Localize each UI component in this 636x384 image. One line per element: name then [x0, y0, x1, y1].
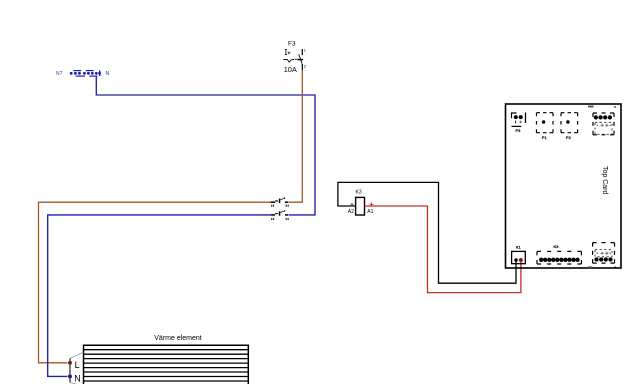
wire brown from fuse pin2 down to contact [289, 70, 302, 202]
svg-text:L: L [75, 360, 80, 370]
svg-text:Top Card: Top Card [601, 166, 608, 195]
wire blue from N terminal down and across to contact [96, 76, 315, 215]
node L [68, 360, 79, 370]
wire red from coil A1 to card K1 pin 2 [365, 206, 521, 293]
connector P2 [561, 113, 578, 140]
connector P3 [512, 113, 526, 133]
connector K1 [512, 245, 526, 264]
relay coil K3 [348, 190, 374, 215]
svg-text:N: N [106, 71, 110, 77]
svg-text:P3: P3 [516, 128, 522, 133]
node N [68, 373, 81, 383]
svg-text:K1: K1 [516, 245, 522, 250]
wire brown from contact left to heater L [39, 202, 271, 363]
svg-text:A2: A2 [348, 209, 354, 215]
terminal N? (mains neutral plug symbol) [56, 70, 110, 77]
svg-text:10A: 10A [284, 65, 297, 74]
wire black from coil A2 to card K1 pin 1 [338, 182, 516, 283]
heating element Värme element [70, 335, 248, 384]
wire blue from contact left to heater N [48, 215, 271, 377]
connector X2 bottom right [588, 243, 617, 269]
connector K3 (card) [537, 244, 581, 264]
svg-text:Värme element: Värme element [154, 335, 202, 342]
svg-text:N?: N? [56, 71, 63, 77]
svg-text:K3: K3 [356, 190, 362, 196]
svg-text:F3: F3 [288, 40, 296, 47]
svg-text:K3: K3 [554, 244, 560, 249]
connector X1 top right [588, 106, 616, 135]
contact K3 pole 2 (blue circuit) [270, 210, 289, 220]
fuse F3 [283, 40, 307, 73]
card Top Card outline [506, 104, 622, 268]
contact K3 pole 1 (brown circuit) [270, 197, 289, 207]
svg-text:P1: P1 [542, 135, 548, 140]
svg-text:A1: A1 [367, 209, 373, 215]
svg-text:P2: P2 [566, 135, 572, 140]
connector P1 [537, 113, 554, 140]
svg-text:N: N [74, 373, 81, 383]
